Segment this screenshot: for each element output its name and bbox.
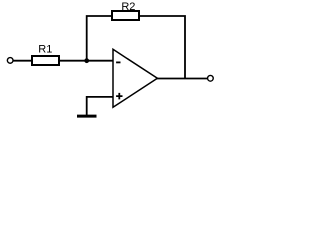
input terminal (7, 58, 13, 64)
wire junction up to R2 (87, 16, 112, 61)
wire R2 to output node (139, 16, 185, 79)
output terminal (208, 75, 214, 81)
op-amp U1 (113, 49, 157, 107)
wire input terminal to R1 (13, 60, 32, 62)
plus sign (non-inverting input) (116, 93, 122, 100)
wire R1 to op-amp inverting input (59, 60, 113, 62)
minus sign (inverting input) (116, 61, 120, 63)
wire non-inverting input to ground (87, 97, 113, 116)
ground (77, 115, 97, 118)
resistor R2 (112, 11, 139, 20)
resistor R1 (32, 56, 59, 65)
svg-text:R1: R1 (38, 44, 52, 56)
wire op-amp output to output terminal (157, 78, 208, 80)
junction dot node A (84, 58, 89, 63)
